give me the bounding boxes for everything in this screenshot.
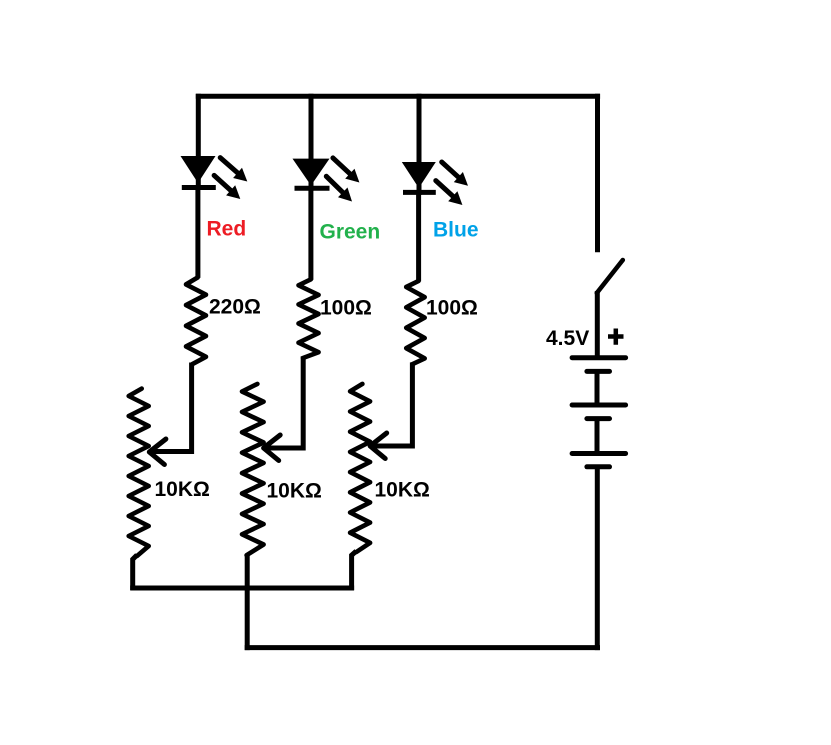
wire battery negative to ground rail bbox=[595, 467, 600, 650]
wire D2 cathode to R2 bbox=[308, 188, 313, 279]
wiper arrowhead VR2 bbox=[264, 435, 281, 461]
wire ground rail bottom bbox=[245, 645, 600, 650]
LED D3 Blue bbox=[402, 162, 436, 192]
svg-text:Green: Green bbox=[320, 220, 381, 243]
wire green branch anode drop bbox=[309, 94, 314, 191]
svg-text:4.5V: 4.5V bbox=[546, 327, 589, 350]
potentiometer VR3 10Kohm bbox=[350, 384, 370, 552]
svg-text:100Ω: 100Ω bbox=[320, 297, 372, 320]
wire pot bottom rail bbox=[130, 586, 354, 591]
wire D1 cathode to R1 bbox=[195, 188, 200, 278]
svg-text:Red: Red bbox=[207, 218, 247, 241]
battery BT1 4.5V bbox=[572, 358, 626, 467]
wire R3 to VR3 wiper bbox=[372, 362, 412, 446]
wire VR2 bottom to ground rail bbox=[245, 554, 250, 650]
wiper arrowhead VR1 bbox=[149, 439, 166, 465]
wire R1 to VR1 wiper bbox=[152, 363, 192, 452]
wire R2 to VR2 wiper bbox=[266, 356, 303, 448]
wire D3 cathode to R3 bbox=[416, 192, 421, 281]
wire right column to switch bbox=[595, 94, 600, 253]
svg-text:220Ω: 220Ω bbox=[209, 296, 261, 319]
LED D1 light arrows bbox=[214, 158, 247, 199]
wire switch to battery bbox=[595, 291, 600, 358]
wire blue branch anode drop bbox=[417, 94, 422, 195]
wire VR3 bottom bbox=[352, 551, 357, 590]
wiper arrowhead VR3 bbox=[370, 433, 387, 459]
LED D2 light arrows bbox=[326, 158, 359, 202]
LED D2 Green bbox=[293, 159, 330, 189]
wire top rail bbox=[196, 94, 600, 99]
svg-text:100Ω: 100Ω bbox=[426, 297, 478, 320]
svg-text:10KΩ: 10KΩ bbox=[155, 478, 210, 501]
svg-text:10KΩ: 10KΩ bbox=[267, 480, 322, 503]
resistor R3 100ohm bbox=[406, 281, 425, 364]
switch S1 blade bbox=[597, 260, 623, 293]
label battery plus sign bbox=[608, 329, 624, 345]
LED D1 Red bbox=[181, 156, 216, 188]
wire red branch anode drop bbox=[196, 94, 201, 190]
potentiometer VR2 10Kohm bbox=[242, 384, 264, 555]
svg-text:10KΩ: 10KΩ bbox=[375, 479, 430, 502]
LED D3 light arrows bbox=[436, 162, 468, 205]
resistor R1 220ohm bbox=[186, 278, 206, 365]
svg-text:Blue: Blue bbox=[433, 219, 479, 242]
wire VR1 bottom bbox=[133, 555, 137, 590]
resistor R2 100ohm bbox=[299, 279, 319, 358]
potentiometer VR1 10Kohm bbox=[129, 389, 149, 556]
